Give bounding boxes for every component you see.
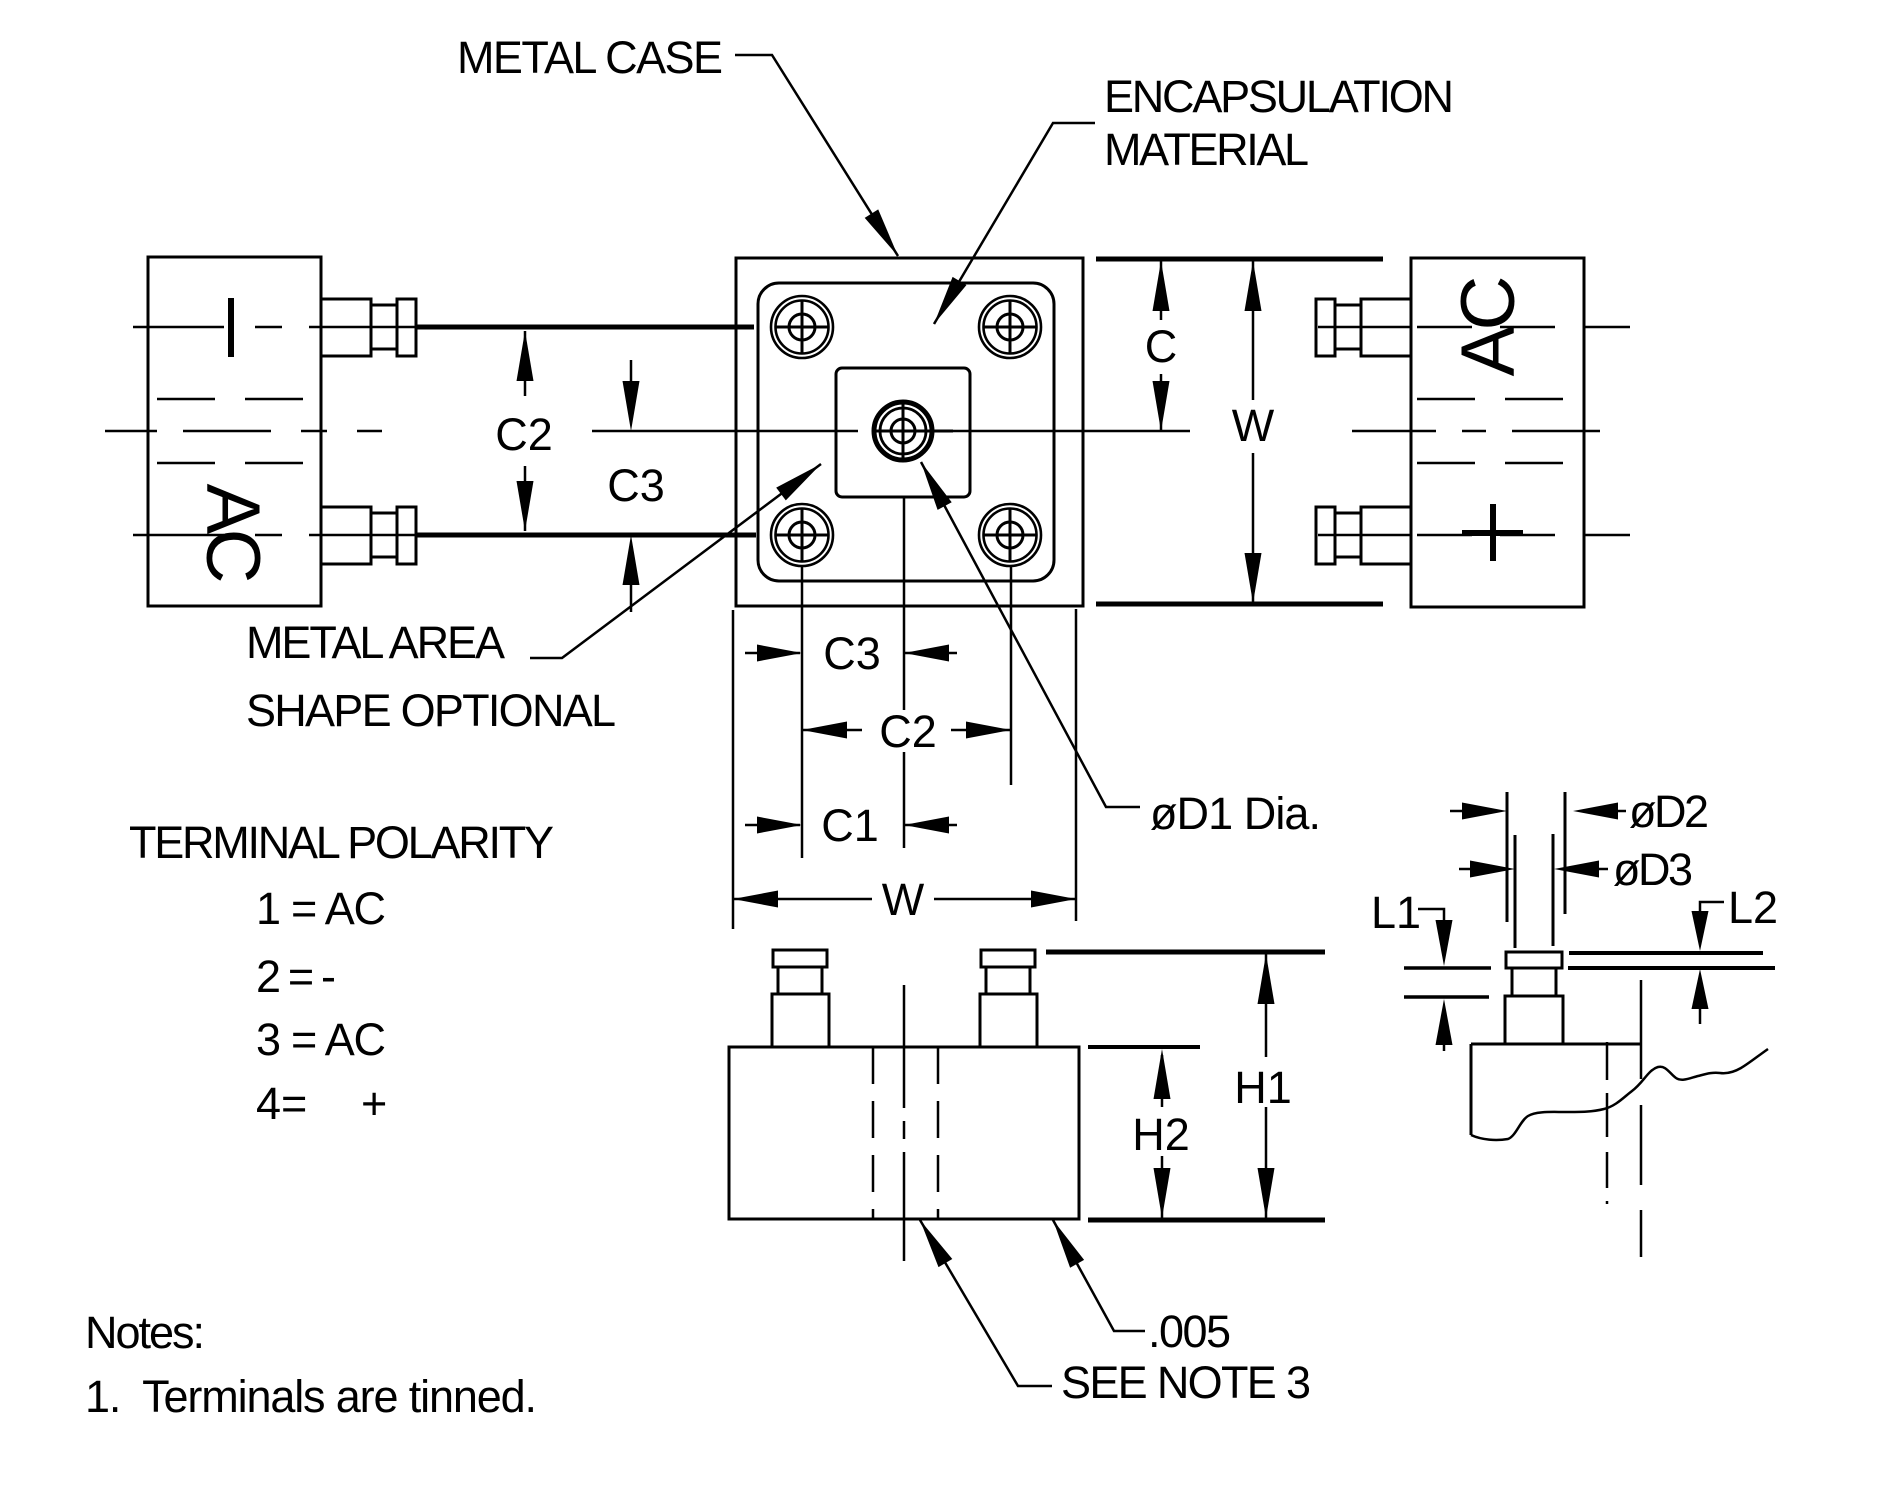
main centerline right segment	[947, 430, 1190, 433]
svg-text:4=: 4=	[256, 1078, 307, 1129]
svg-text:C2: C2	[495, 409, 553, 460]
detail terminal base	[1505, 996, 1563, 1044]
encapsulation boundary	[758, 283, 1054, 581]
terminal 1 neck	[371, 513, 397, 557]
main centerline left chain	[105, 430, 382, 433]
left AC label (rotated)	[190, 484, 275, 584]
dimension oD2 right arrow	[1610, 810, 1626, 813]
right box hidden edge upper	[1417, 398, 1576, 401]
detail centerline right	[1640, 980, 1643, 1257]
dimension oD3 left arrow	[1459, 868, 1472, 871]
minus terminal mark (rotated)	[228, 298, 234, 357]
dimension C3 left lower arrow	[630, 580, 633, 612]
svg-text:H1: H1	[1234, 1062, 1292, 1113]
detail wire oD3 line right	[1552, 834, 1555, 946]
svg-text:W: W	[882, 874, 925, 925]
detail centerline left	[1606, 1042, 1609, 1204]
L1 reference line upper	[1404, 966, 1491, 970]
W extension left	[732, 610, 735, 929]
dimension C2 left shaft upper	[524, 331, 527, 396]
dimension W right shaft lower	[1252, 453, 1255, 604]
top extension line right	[1096, 257, 1383, 262]
dimension H1 shaft upper	[1265, 954, 1268, 1057]
svg-text:2 = -: 2 = -	[256, 951, 336, 1002]
dimension H1 shaft lower	[1265, 1107, 1268, 1218]
side view hidden line right	[937, 1047, 940, 1219]
leader ENCAPSULATION MATERIAL	[934, 123, 1095, 324]
terminal 1 lead wire	[416, 533, 756, 538]
svg-text:+: +	[361, 1078, 387, 1129]
center terminal D1	[874, 400, 953, 460]
svg-text:W: W	[1232, 400, 1275, 451]
svg-text:A: A	[190, 484, 275, 535]
svg-text:C2: C2	[879, 706, 937, 757]
corner terminal bottom-right	[979, 504, 1041, 566]
dimension C3 bottom left arrow	[745, 652, 800, 655]
leader SEE NOTE 3	[920, 1220, 1052, 1386]
dimension C2 bottom left arrow	[802, 729, 862, 732]
detail body top surface	[1471, 1043, 1505, 1046]
terminal 4 neck	[1335, 513, 1361, 557]
left box hidden edge upper	[157, 398, 321, 401]
terminal 2 flange	[397, 299, 416, 356]
svg-text:C3: C3	[823, 628, 881, 679]
terminal 2 base	[321, 299, 371, 356]
svg-text:øD3: øD3	[1613, 844, 1693, 895]
H1 bottom extension line	[1088, 1218, 1325, 1223]
H1 top extension line	[1046, 950, 1325, 955]
svg-text:C1: C1	[821, 800, 879, 851]
dimension C vertical shaft upper	[1160, 261, 1163, 320]
terminal 3 flange	[1316, 299, 1335, 356]
terminal 4 flange	[1316, 507, 1335, 564]
svg-text:H2: H2	[1132, 1109, 1190, 1160]
extension line below circle bottom-left	[801, 566, 804, 858]
plus terminal mark	[1462, 530, 1523, 536]
right box hidden edge lower	[1417, 462, 1576, 465]
detail terminal neck	[1512, 968, 1556, 996]
terminal 1 flange	[397, 507, 416, 564]
left AC box	[148, 257, 321, 606]
L1 lower arrow	[1436, 999, 1453, 1045]
dimension W bottom right arrow	[934, 898, 1076, 901]
dimension C1 left arrow	[745, 824, 800, 827]
dimension C1 right arrow	[904, 824, 957, 827]
svg-text:øD1 Dia.: øD1 Dia.	[1150, 788, 1321, 839]
terminal 1 centerline	[133, 534, 416, 537]
svg-text:3 = AC: 3 = AC	[256, 1014, 386, 1065]
terminal 3 base	[1361, 299, 1411, 356]
terminal 2 neck	[371, 305, 397, 349]
svg-text:SHAPE OPTIONAL: SHAPE OPTIONAL	[246, 685, 616, 736]
center metal pad	[836, 368, 970, 497]
side view terminal right cap	[981, 950, 1035, 967]
leader METAL AREA	[530, 464, 821, 658]
detail body break line (wavy)	[1471, 1049, 1768, 1140]
main centerline right chain	[1352, 430, 1630, 433]
svg-text:C3: C3	[607, 460, 665, 511]
L2 plate line lower	[1568, 966, 1775, 970]
terminal 2 centerline	[133, 326, 416, 329]
extension line below circle bottom-right	[1010, 566, 1013, 785]
svg-text:C: C	[1446, 276, 1531, 331]
detail body left edge	[1470, 1044, 1473, 1135]
leader .005	[1053, 1220, 1145, 1331]
dimension C3 bottom right arrow	[904, 652, 957, 655]
dimension C vertical shaft lower	[1160, 374, 1163, 431]
svg-text:L1: L1	[1371, 887, 1421, 938]
svg-text:C: C	[190, 529, 275, 584]
corner terminal top-right	[979, 296, 1041, 358]
extension line below pad center upper	[903, 497, 906, 710]
terminal 3 neck	[1335, 305, 1361, 349]
W extension right	[1075, 609, 1078, 921]
svg-text:MATERIAL: MATERIAL	[1104, 124, 1309, 175]
svg-text:1. Terminals are tinned.: 1. Terminals are tinned.	[85, 1371, 537, 1422]
detail wire oD2 line right	[1564, 792, 1567, 914]
dimension C2 bottom right arrow	[951, 729, 1011, 732]
svg-text:1 = AC: 1 = AC	[256, 883, 386, 934]
right AC label (rotated)	[1446, 276, 1531, 377]
svg-text:øD2: øD2	[1629, 786, 1709, 837]
terminal 4 centerline	[1318, 534, 1412, 537]
dimension H2 shaft lower	[1161, 1156, 1164, 1218]
dimension H2 shaft upper	[1161, 1055, 1164, 1107]
svg-text:Notes:: Notes:	[85, 1307, 205, 1358]
leader oD1	[921, 462, 1140, 807]
dimension W right shaft upper	[1252, 261, 1255, 400]
svg-text:L2: L2	[1728, 882, 1778, 933]
svg-text:C: C	[1145, 321, 1178, 372]
dimension W bottom left arrow	[733, 898, 872, 901]
side view terminal right base	[980, 994, 1037, 1047]
terminal 3 centerline	[1318, 326, 1412, 329]
detail wire oD2 line left	[1506, 792, 1509, 922]
side view terminal left base	[772, 994, 829, 1047]
svg-text:TERMINAL POLARITY: TERMINAL POLARITY	[129, 817, 554, 868]
svg-text:.005: .005	[1148, 1306, 1231, 1357]
terminal 2 lead wire	[416, 325, 754, 330]
side view terminal left cap	[773, 950, 827, 967]
side view terminal left neck	[778, 967, 822, 994]
L2 lower arrow	[1692, 969, 1709, 1009]
right AC box	[1411, 258, 1584, 607]
dimension C3 left upper arrow	[630, 360, 633, 386]
corner terminal top-left	[771, 296, 833, 358]
metal case outline top view	[736, 258, 1083, 606]
detail wire oD3 line left	[1514, 835, 1517, 948]
H2 top extension line	[1088, 1045, 1200, 1049]
dimension C2 left shaft lower	[524, 466, 527, 531]
corner terminal bottom-left	[771, 504, 833, 566]
leader L2	[1700, 902, 1724, 911]
svg-text:A: A	[1446, 325, 1531, 376]
svg-text:METAL CASE: METAL CASE	[457, 32, 723, 83]
svg-text:METAL AREA: METAL AREA	[246, 617, 505, 668]
extension line below pad center lower	[903, 752, 906, 848]
detail terminal cap	[1506, 952, 1562, 968]
leader METAL CASE	[735, 55, 898, 256]
side view centerline	[903, 985, 906, 1261]
left box hidden edge lower	[157, 462, 321, 465]
L1 reference line lower	[1404, 995, 1489, 999]
L2 plate line upper	[1569, 951, 1763, 955]
side view hidden line left	[872, 1047, 875, 1219]
side view body	[729, 1047, 1079, 1219]
leader L1	[1418, 909, 1444, 920]
dimension oD3 right arrow	[1597, 868, 1608, 871]
main centerline mid segment	[592, 430, 858, 433]
svg-text:SEE NOTE 3: SEE NOTE 3	[1061, 1357, 1311, 1408]
bottom extension line right	[1096, 602, 1383, 607]
terminal 1 base	[321, 507, 371, 564]
dimension oD2 left arrow	[1450, 810, 1465, 813]
svg-text:ENCAPSULATION: ENCAPSULATION	[1104, 71, 1454, 122]
side view terminal right neck	[986, 967, 1030, 994]
terminal 4 base	[1361, 507, 1411, 564]
